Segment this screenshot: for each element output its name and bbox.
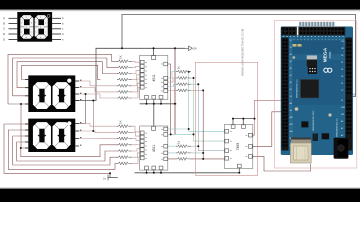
svg-text:4511: 4511 bbox=[152, 74, 156, 81]
svg-text:50: 50 bbox=[290, 89, 292, 91]
svg-text:B: B bbox=[3, 21, 5, 25]
svg-text:26: 26 bbox=[290, 47, 292, 49]
svg-text:D7: D7 bbox=[341, 62, 343, 64]
svg-text:D3: D3 bbox=[341, 76, 343, 78]
svg-text:38: 38 bbox=[290, 68, 292, 70]
svg-text:WWW.LEARNSOMETHING.COM: WWW.LEARNSOMETHING.COM bbox=[241, 28, 245, 76]
svg-text:4511: 4511 bbox=[152, 145, 156, 152]
svg-text:1k: 1k bbox=[177, 66, 181, 70]
svg-text:42: 42 bbox=[290, 75, 292, 77]
svg-text:1k: 1k bbox=[177, 140, 181, 144]
svg-text:WWW.ARDUINO.CC: WWW.ARDUINO.CC bbox=[295, 79, 298, 98]
svg-text:A2: A2 bbox=[341, 127, 343, 130]
svg-text:D13: D13 bbox=[341, 41, 344, 43]
svg-text:A8: A8 bbox=[290, 102, 292, 105]
svg-text:A4: A4 bbox=[341, 134, 343, 137]
svg-text:E: E bbox=[3, 37, 5, 41]
svg-text:22: 22 bbox=[290, 40, 292, 42]
svg-text:D1: D1 bbox=[341, 83, 343, 85]
svg-text:A0: A0 bbox=[341, 120, 343, 123]
svg-text:WWW.ARDUINO.CC: WWW.ARDUINO.CC bbox=[336, 118, 339, 137]
svg-text:D9: D9 bbox=[341, 55, 343, 57]
svg-text:D5: D5 bbox=[341, 69, 343, 71]
svg-text:WWW.ARDUINO.ORG: WWW.ARDUINO.ORG bbox=[312, 110, 315, 131]
svg-text:34: 34 bbox=[290, 61, 292, 63]
svg-text:A14: A14 bbox=[290, 130, 293, 133]
svg-text:30: 30 bbox=[290, 54, 292, 56]
svg-text:46: 46 bbox=[290, 82, 292, 84]
svg-text:1K: 1K bbox=[119, 55, 123, 59]
svg-text:2560: 2560 bbox=[328, 51, 332, 58]
svg-text:A: A bbox=[3, 16, 5, 20]
svg-text:1K: 1K bbox=[119, 120, 123, 124]
svg-text:GND: GND bbox=[341, 107, 346, 109]
svg-text:5V: 5V bbox=[193, 47, 197, 51]
svg-text:53: 53 bbox=[290, 96, 292, 98]
svg-text:A12: A12 bbox=[290, 123, 293, 126]
svg-text:A10: A10 bbox=[290, 116, 293, 119]
svg-text:C: C bbox=[3, 27, 5, 31]
svg-text:7493: 7493 bbox=[236, 143, 240, 151]
svg-text:D11: D11 bbox=[341, 48, 344, 50]
svg-text:D: D bbox=[3, 32, 5, 36]
svg-text:A9: A9 bbox=[290, 109, 292, 112]
